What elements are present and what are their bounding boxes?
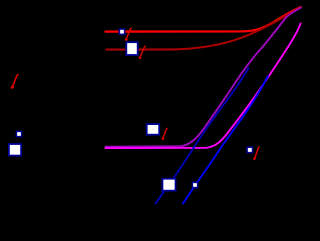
curve: dark red (lower red trace, flat then rising to top-right corner) — [107, 7, 301, 49]
marker: small square on bright red line — [119, 29, 124, 34]
label: red italic glyph after small red square — [125, 28, 132, 41]
marker: medium square above magenta flat line — [147, 124, 160, 135]
marker: small square on bright blue line — [192, 182, 197, 187]
label: red italic glyph right of medium square — [162, 128, 168, 140]
curve: bright blue (steep line through small lower square) — [183, 76, 268, 204]
curve: bright red (upper red trace, flat then rising to top-right corner) — [106, 7, 301, 32]
marker: small square near left edge — [16, 131, 21, 136]
label: lone red italic glyph near left edge (axis label) — [11, 75, 18, 89]
marker: big square near left edge — [9, 144, 21, 156]
curve: dark magenta sigmoid (flat tail then steep rise, merges at top-right corner) — [106, 8, 301, 147]
marker: big square on dark red line — [126, 42, 137, 55]
label: red italic glyph right of that small square — [253, 147, 259, 160]
curve: bright magenta sigmoid (flat tail then steep rise, tip near top-right) — [106, 24, 301, 149]
label: red italic glyph after big red square — [139, 46, 146, 59]
marker: small square right of curves (with glyph) — [247, 147, 252, 152]
curve: dark blue (steep line through big lower square) — [156, 68, 249, 204]
marker: big square on dark blue line — [162, 179, 175, 191]
